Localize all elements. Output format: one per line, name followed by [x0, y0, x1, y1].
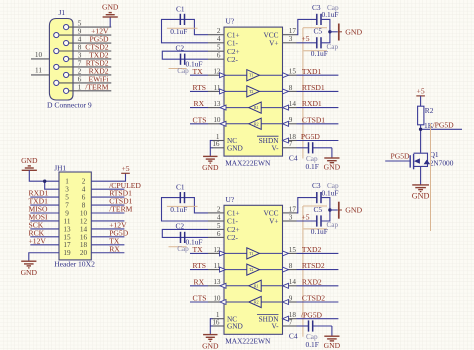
svg-text:GND: GND	[102, 3, 119, 12]
svg-text:17: 17	[63, 241, 71, 249]
svg-text:MAX222EWN: MAX222EWN	[225, 159, 271, 168]
svg-text:4: 4	[217, 213, 221, 221]
svg-text:GND: GND	[227, 144, 243, 153]
svg-text:19: 19	[63, 249, 71, 257]
svg-text:Cap: Cap	[177, 67, 189, 75]
J1 pin 2 wire / net label RXD2	[64, 66, 112, 77]
+5 power symbol above R2	[416, 87, 425, 107]
wire and net label PG5D (SHDN pin 18)	[297, 132, 339, 141]
svg-text:PG5D: PG5D	[301, 132, 321, 141]
svg-text:15: 15	[63, 233, 71, 241]
svg-text:16: 16	[212, 318, 220, 326]
svg-text:13: 13	[63, 225, 71, 233]
svg-text:1: 1	[78, 83, 82, 91]
wire R2 to Q1 drain, net /PG5D	[421, 120, 462, 152]
capacitor C5 (0.1uF) and wiring, +5 power net label, block 2	[297, 205, 339, 236]
svg-text:7: 7	[78, 59, 82, 67]
svg-text:3: 3	[289, 213, 293, 221]
wire and net label RXD2	[297, 277, 339, 286]
ground symbol above J1 pin 5	[102, 3, 119, 28]
svg-text:3: 3	[289, 35, 293, 43]
svg-text:V-: V-	[271, 322, 279, 331]
junction node at C3/C5/GND tie, block 2	[328, 208, 331, 211]
pins of U? block 2 with pin numbers	[208, 205, 297, 326]
svg-text:14: 14	[80, 225, 88, 233]
+5 power symbol at JH1 pin 2	[91, 164, 130, 181]
svg-text:17: 17	[289, 205, 297, 213]
JH1 left wire pin 7 / net label TXD1	[29, 197, 60, 206]
svg-text:20: 20	[80, 249, 88, 257]
svg-text:R1: R1	[254, 284, 259, 288]
svg-text:GND: GND	[21, 156, 38, 165]
svg-text:1: 1	[65, 178, 69, 186]
svg-text:7: 7	[289, 318, 293, 326]
svg-text:R2: R2	[254, 301, 259, 305]
svg-text:6: 6	[82, 194, 86, 202]
JH1 right wire pin 4 / net label /CPULED	[91, 181, 141, 190]
svg-text:CTS: CTS	[193, 115, 207, 124]
svg-text:R2: R2	[254, 122, 259, 126]
svg-text:T2: T2	[249, 268, 253, 272]
svg-text:5: 5	[217, 222, 221, 230]
JH1 right wire pin 16 / net label PG5D	[91, 228, 128, 237]
ground symbol below U? pins 1,16 block 2	[202, 318, 219, 350]
svg-text:V+: V+	[269, 39, 278, 48]
svg-text:T1: T1	[249, 252, 253, 256]
svg-text:CTSD2: CTSD2	[302, 294, 325, 303]
svg-text:0.1F: 0.1F	[306, 162, 319, 171]
JH1 pin numbers	[63, 178, 87, 258]
svg-text:2: 2	[82, 178, 86, 186]
svg-text:14: 14	[289, 278, 297, 286]
resistor R2 1K	[418, 106, 434, 130]
svg-text:RX: RX	[194, 277, 205, 286]
wire RX / net label RX, block 1	[190, 99, 208, 108]
svg-text:GND: GND	[21, 268, 38, 277]
J1 pin 8 wire / net label CTSD2	[54, 43, 112, 54]
svg-text:+12V: +12V	[29, 236, 47, 245]
svg-text:13: 13	[213, 278, 221, 286]
svg-text:0.1uF: 0.1uF	[311, 227, 328, 236]
svg-text:C2: C2	[176, 43, 185, 52]
capacitor C4 (Cap 0.1F) and wiring, block 1	[289, 142, 332, 171]
wire and net label TXD1	[297, 67, 339, 76]
svg-text:V-: V-	[271, 144, 279, 153]
ground symbol below C4, block 2	[324, 326, 341, 350]
svg-text:RTS: RTS	[193, 83, 206, 92]
J1 pin 5 wire	[64, 20, 112, 30]
capacitor C3 (0.1uF) and wiring, block 2	[297, 181, 339, 213]
svg-text:RX: RX	[194, 99, 205, 108]
svg-text:RX: RX	[109, 244, 120, 253]
svg-text:9: 9	[65, 209, 69, 217]
svg-text:RXD2: RXD2	[302, 277, 322, 286]
svg-text:C4: C4	[289, 154, 298, 163]
J1 pin 3 wire / net label TXD2	[64, 50, 112, 61]
wire and net label CTSD2	[297, 294, 339, 303]
wire RTS / net label RTS, block 2	[190, 261, 208, 270]
svg-text:U?: U?	[226, 195, 235, 204]
svg-text:0.1uF: 0.1uF	[322, 10, 339, 19]
svg-text:8: 8	[82, 201, 86, 209]
svg-text:R2: R2	[425, 106, 434, 115]
JH1 right wire pin 20 / net label RX	[91, 244, 124, 253]
junction node JH1 gnd tie	[43, 180, 46, 183]
svg-text:10: 10	[35, 51, 43, 59]
svg-text:CTS: CTS	[193, 294, 207, 303]
JH1 right wire pin 18 / net label TX	[91, 236, 124, 245]
svg-text:3: 3	[65, 186, 69, 194]
svg-text:+5: +5	[302, 212, 310, 221]
svg-text:Cap: Cap	[327, 221, 339, 229]
svg-text:C1: C1	[176, 183, 185, 192]
svg-text:GND: GND	[202, 341, 219, 350]
ground symbol below C4, block 1	[324, 148, 341, 172]
wire and net label RTSD1	[297, 83, 339, 92]
svg-text:6: 6	[217, 230, 221, 238]
transistor Q1 2N7000	[410, 150, 454, 185]
ground symbol and wire to JH1 pins 1,3	[21, 156, 59, 189]
svg-text:2N7000: 2N7000	[430, 158, 454, 167]
JH1 right wire pin 14 / net label +12V	[91, 221, 127, 230]
svg-text:4: 4	[217, 35, 221, 43]
svg-text:0.1F: 0.1F	[306, 340, 319, 349]
svg-text:C3: C3	[312, 3, 321, 12]
svg-text:T2: T2	[249, 90, 253, 94]
svg-text:4: 4	[78, 36, 82, 44]
svg-text:C2-: C2-	[227, 233, 239, 242]
svg-text:16: 16	[212, 140, 220, 148]
J1 pin 4 wire / net label PG5D	[64, 35, 112, 46]
J1 pin 6 wire / net label EWiFi	[54, 74, 112, 85]
svg-text:TXD2: TXD2	[302, 245, 322, 254]
svg-text:TX: TX	[193, 67, 204, 76]
svg-text:MAX222EWN: MAX222EWN	[225, 337, 271, 346]
JH1 right wire pin 6 / net label RTSD1	[91, 189, 132, 198]
svg-text:J1: J1	[59, 8, 66, 17]
svg-text:C4: C4	[289, 332, 298, 341]
svg-text:12: 12	[80, 217, 88, 225]
svg-text:+5: +5	[302, 34, 310, 43]
svg-text:10: 10	[80, 209, 88, 217]
svg-text:GND: GND	[202, 163, 219, 172]
svg-text:0.1uF: 0.1uF	[322, 188, 339, 197]
svg-text:14: 14	[289, 100, 297, 108]
wire CTS / net label CTS, block 1	[190, 115, 208, 124]
svg-text:5: 5	[65, 194, 69, 202]
svg-text:C3: C3	[312, 181, 321, 190]
svg-text:RXD1: RXD1	[302, 99, 322, 108]
JH1 left wire pin 17 / net label +12V	[29, 236, 60, 245]
svg-text:7: 7	[289, 140, 293, 148]
svg-text:5: 5	[78, 20, 82, 28]
svg-text:8: 8	[289, 84, 293, 92]
svg-text:TXD1: TXD1	[302, 67, 322, 76]
svg-text:RTSD1: RTSD1	[302, 83, 325, 92]
svg-text:6: 6	[78, 75, 82, 83]
svg-text:10: 10	[213, 116, 221, 124]
svg-text:/PG5D: /PG5D	[433, 120, 455, 129]
svg-text:R1: R1	[254, 106, 259, 110]
wire and net label PG5D at Q1 gate	[385, 152, 410, 161]
JH1 right wire pin 12	[91, 220, 124, 222]
svg-text:T1: T1	[249, 74, 253, 78]
svg-text:C2: C2	[176, 222, 185, 231]
J1 pin 9 wire / net label +12V	[54, 27, 112, 38]
svg-text:10: 10	[213, 294, 221, 302]
svg-text:0.1uF: 0.1uF	[170, 205, 187, 214]
svg-text:18: 18	[80, 241, 88, 249]
svg-text:GND: GND	[412, 192, 430, 201]
ground symbol below U? pins 1,16 block 1	[202, 140, 219, 172]
wire and net label RTSD2	[297, 261, 339, 270]
junction node R2/Q1//PG5D	[419, 128, 422, 131]
connector J1 D Connector 9 body	[47, 8, 92, 110]
capacitor C4 (Cap 0.1F) and wiring, block 2	[289, 320, 332, 349]
capacitor C1 (0.1uF) with wiring, block 1	[162, 4, 209, 43]
svg-text:8: 8	[289, 262, 293, 270]
svg-text:4: 4	[82, 186, 86, 194]
svg-text:16: 16	[80, 233, 88, 241]
wire RX / net label RX, block 2	[190, 277, 208, 286]
J1 pin 7 wire / net label RTSD2	[54, 58, 112, 69]
J1 pin 1 wire / net label /TERM	[64, 82, 112, 93]
decorative tan artifact line right	[430, 123, 432, 231]
J1 pin 11 wire	[31, 67, 49, 75]
svg-text:RTS: RTS	[193, 261, 206, 270]
svg-text:GND: GND	[227, 322, 243, 331]
svg-text:+5: +5	[417, 87, 425, 96]
capacitor C3 (0.1uF) and wiring, block 1	[297, 3, 339, 35]
JH1 left wire pin 13 / net label SCK	[29, 221, 60, 230]
svg-text:9: 9	[289, 294, 293, 302]
ground symbol below Q1 source	[412, 185, 430, 201]
JH1 left wire pin 15 / net label RCK	[29, 228, 60, 237]
svg-text:0.1uF: 0.1uF	[311, 49, 328, 58]
svg-text:/PG5D: /PG5D	[301, 310, 323, 319]
wire TX / net label TX, block 1	[190, 67, 208, 76]
decorative tan artifact line, block 2	[302, 206, 304, 337]
svg-text:GND: GND	[324, 163, 341, 172]
pins of U? block 1 with pin numbers	[208, 27, 297, 148]
svg-text:2: 2	[217, 27, 221, 35]
wire CTS / net label CTS, block 2	[190, 294, 208, 303]
svg-text:GND: GND	[324, 341, 341, 350]
svg-text:Cap: Cap	[327, 43, 339, 51]
svg-text:U?: U?	[226, 17, 235, 26]
connector JH1 Header 10X2 body	[54, 163, 95, 268]
JH1 left wire pin 11 / net label MOSI	[29, 213, 60, 222]
JH1 right wire pin 8 / net label CTSD1	[91, 197, 132, 206]
svg-text:9: 9	[289, 116, 293, 124]
svg-text:D Connector 9: D Connector 9	[47, 101, 92, 110]
svg-text:C1: C1	[176, 4, 185, 13]
wire TX / net label TX, block 2	[190, 245, 208, 254]
GND power bar symbol right of C3/C5, block 1	[330, 24, 363, 41]
capacitor C1 (0.1uF) with wiring, block 2	[162, 183, 209, 222]
svg-text:GND: GND	[345, 27, 362, 36]
JH1 right wire pin 10 / net label /TERM	[91, 205, 132, 214]
svg-text:5: 5	[217, 44, 221, 52]
svg-text:2: 2	[78, 67, 82, 75]
svg-text:V+: V+	[269, 217, 278, 226]
capacitor C5 (0.1uF) and wiring, +5 power net label, block 1	[297, 27, 339, 58]
svg-text:11: 11	[35, 67, 42, 75]
svg-text:2: 2	[217, 205, 221, 213]
wire and net label CTSD1	[297, 115, 339, 124]
svg-text:+5: +5	[121, 164, 129, 173]
svg-text:/TERM: /TERM	[109, 205, 132, 214]
GND power bar symbol right of C3/C5, block 2	[330, 202, 363, 219]
svg-text:/TERM: /TERM	[85, 82, 108, 91]
svg-text:Cap: Cap	[177, 245, 189, 253]
svg-text:RTSD2: RTSD2	[302, 261, 325, 270]
wire RTS / net label RTS, block 1	[190, 83, 208, 92]
decorative tan artifact line, block 1	[302, 28, 304, 159]
capacitor C2 (0.1uF) with wiring, block 2	[162, 222, 208, 254]
svg-text:GND: GND	[345, 206, 362, 215]
svg-text:6: 6	[217, 52, 221, 60]
svg-text:TX: TX	[193, 245, 204, 254]
svg-text:8: 8	[78, 44, 82, 52]
svg-text:7: 7	[65, 201, 69, 209]
svg-text:9: 9	[78, 28, 82, 36]
svg-text:11: 11	[64, 217, 71, 225]
svg-text:CTSD1: CTSD1	[302, 115, 325, 124]
wire and net label /PG5D (SHDN pin 18)	[297, 310, 339, 319]
svg-text:JH1: JH1	[54, 163, 66, 172]
wire and net label RXD1	[297, 99, 339, 108]
op-amp U? MAX222EWN body (block 1)	[224, 17, 283, 168]
svg-text:0.1uF: 0.1uF	[170, 27, 187, 36]
JH1 left wire pin 5 / net label RXD1	[29, 189, 60, 198]
svg-text:15: 15	[289, 68, 297, 76]
JH1 left wire pin 9 / net label MISO	[29, 205, 60, 214]
svg-text:Header 10X2: Header 10X2	[54, 260, 95, 269]
svg-text:17: 17	[289, 27, 297, 35]
svg-text:PG5D: PG5D	[391, 152, 411, 161]
svg-text:3: 3	[78, 51, 82, 59]
svg-text:13: 13	[213, 100, 221, 108]
capacitor C2 (0.1uF) with wiring, block 1	[162, 43, 208, 75]
svg-text:15: 15	[289, 246, 297, 254]
J1 pin 10 wire	[31, 51, 49, 59]
op-amp U? MAX222EWN body (block 2)	[224, 195, 283, 346]
junction node at C3/C5/GND tie, block 1	[328, 30, 331, 33]
ground symbol below JH1 pin 19	[21, 253, 59, 277]
wire and net label TXD2	[297, 245, 339, 254]
svg-text:C2-: C2-	[227, 55, 239, 64]
